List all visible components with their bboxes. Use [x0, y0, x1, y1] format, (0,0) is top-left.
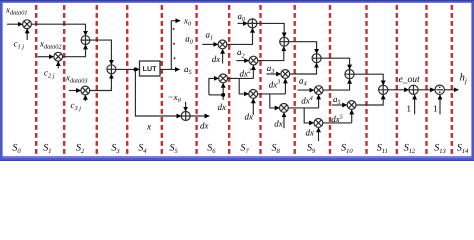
- multiplier X3 (xdata03 x c3j): [81, 86, 90, 95]
- wire a1 into M1: [202, 43, 218, 45]
- adder B1: [248, 19, 257, 28]
- multiplier P5 (dx5 gen): [314, 119, 323, 128]
- stage boundary S2/S3: [96, 4, 98, 157]
- stage boundary S8/S9: [294, 4, 296, 157]
- adder B4: [345, 70, 354, 79]
- wire B4 out to C1 top: [354, 74, 383, 85]
- wire 1 up into D1: [414, 95, 416, 114]
- wire x_data03 into X3: [69, 90, 81, 92]
- multiplier M1 (a1 x dx): [218, 40, 227, 49]
- wire a5 into M5: [332, 104, 347, 106]
- wire c2j up into X2: [57, 61, 59, 68]
- stage labels: [12, 143, 469, 155]
- wire dot to P2 bottom: [222, 83, 224, 95]
- adder A2: [107, 65, 116, 74]
- wire P2 out dx2: [228, 77, 254, 79]
- multiplier M5 (a5 x dx5): [347, 101, 356, 110]
- wire P3 out dx3: [258, 93, 286, 95]
- stage boundary S13/S14: [451, 4, 453, 157]
- LUT block: [140, 61, 161, 76]
- adder B3: [312, 54, 321, 63]
- frame border: [0, 0, 474, 161]
- wire 1 up into D2: [439, 95, 441, 114]
- stage boundary dashed lines: [36, 4, 452, 157]
- divider D2: [435, 85, 444, 94]
- wire a0 into B1: [238, 22, 248, 24]
- stage boundary S4/S5: [161, 4, 163, 157]
- multiplier P4 (dx4 gen): [280, 104, 289, 113]
- wire B3 out to B4 top: [321, 58, 349, 69]
- svg-text:dx: dx: [212, 54, 221, 64]
- wire dx up into M1: [222, 49, 224, 63]
- multiplier M2 (a2 x dx2): [249, 56, 258, 65]
- stage boundary S1/S2: [63, 4, 65, 157]
- wire P4 out dx4: [288, 107, 318, 109]
- wire a3 into M3: [267, 73, 281, 75]
- stage boundary S11/S12: [396, 4, 398, 157]
- wire M4 out to B4 bottom: [323, 79, 349, 90]
- stage boundary S12/S13: [425, 4, 427, 157]
- stage boundary S7/S8: [259, 4, 261, 157]
- wire X1 out to A1 top: [31, 24, 85, 35]
- stage boundary S10/S11: [365, 4, 367, 157]
- junction dot at LUT input: [134, 68, 138, 72]
- wire branch up from a5 line: [170, 21, 172, 70]
- wire dx up into P5 bottom: [318, 128, 320, 141]
- wire D1 out to D2: [418, 89, 434, 91]
- svg-text:x: x: [146, 122, 152, 132]
- wire B1 out to B2 top: [257, 23, 284, 37]
- ellipsis dots LUT outputs: [173, 28, 175, 30]
- wire x_data01 into X1: [7, 23, 22, 25]
- multiplier P2 (dx squarer): [219, 74, 228, 83]
- wire LUT out to a5: [160, 68, 180, 70]
- wire dx stub below dot: [222, 95, 224, 100]
- multiplier M4 (a4 x dx4): [314, 86, 323, 95]
- svg-text:LUT: LUT: [143, 66, 158, 73]
- stage boundary S5/S6: [195, 4, 197, 157]
- wire x drop to subtractor: [135, 69, 181, 116]
- wire dx3 up into M3: [284, 79, 286, 94]
- multiplier P3 (dx cuber): [249, 90, 258, 99]
- svg-text:1: 1: [407, 103, 412, 113]
- wire dx3 branch down into P4 left: [270, 94, 280, 108]
- wire branch to x0: [171, 20, 180, 22]
- wire dx4 up into M4: [318, 95, 320, 108]
- adder D1: [409, 85, 418, 94]
- wire dx2 up into M2: [252, 65, 254, 78]
- wire C1 out to D1: [388, 89, 409, 91]
- wire -x0 down into subtractor: [185, 102, 187, 112]
- wire B2 out to B3 top: [289, 42, 317, 54]
- svg-text:dx: dx: [245, 111, 254, 121]
- wire a2 into M2: [236, 60, 249, 62]
- multiplier X2 (xdata02 x c2j): [54, 52, 63, 61]
- wire X3 out to A2 bottom: [90, 74, 112, 90]
- adder C1: [379, 85, 388, 94]
- wire dx up into P3 bottom: [252, 99, 254, 115]
- wire M2 out to B2 bottom: [258, 47, 284, 61]
- wire a4 into M4: [298, 89, 314, 91]
- wire M1 out to B1 bottom: [227, 28, 252, 44]
- wire dot loop horizontal: [209, 94, 223, 96]
- wire A2 out to LUT: [116, 68, 139, 70]
- svg-text:dx: dx: [274, 119, 283, 129]
- svg-text:dx: dx: [200, 120, 209, 130]
- wire D2 out to hj: [445, 89, 459, 91]
- svg-text:dx: dx: [218, 102, 227, 112]
- wire x_data02 into X2: [38, 56, 54, 58]
- wire A1 out to A2 top: [90, 40, 111, 65]
- wire c1j up into X1: [26, 29, 28, 40]
- wire subtractor out dx: [190, 115, 209, 117]
- multiplier X1 (xdata01 x c1j): [23, 20, 32, 29]
- wire M5 out to C1 bottom: [356, 95, 383, 105]
- svg-text:1: 1: [433, 103, 438, 113]
- wire dx2 branch down into P3 left: [239, 78, 248, 94]
- stage boundary S9/S10: [329, 4, 331, 157]
- svg-text:e_out: e_out: [399, 75, 420, 85]
- stage boundary S0/S1: [35, 4, 37, 157]
- wire dx up into P4 bottom: [283, 113, 285, 129]
- junction dot dx distribution: [221, 93, 225, 97]
- wire c3j up into X3: [84, 95, 86, 101]
- wire dx loop into P2 left: [209, 78, 219, 95]
- stage boundary S6/S7: [228, 4, 230, 157]
- stage boundary S3/S4: [126, 4, 128, 157]
- multiplier M3 (a3 x dx3): [281, 70, 290, 79]
- adder B2: [280, 37, 289, 46]
- wire dx4 branch down into P5 left: [304, 108, 314, 123]
- svg-text:dx: dx: [306, 127, 315, 137]
- wire P5 out dx5: [323, 122, 352, 124]
- subtractor SUB: [181, 112, 190, 121]
- wire M3 out to B3 bottom: [290, 63, 317, 74]
- wire dx5 up into M5: [351, 110, 353, 123]
- adder A1: [81, 36, 90, 45]
- CIRCLES: [23, 19, 445, 127]
- wire X2 out to A1 bottom: [63, 45, 86, 57]
